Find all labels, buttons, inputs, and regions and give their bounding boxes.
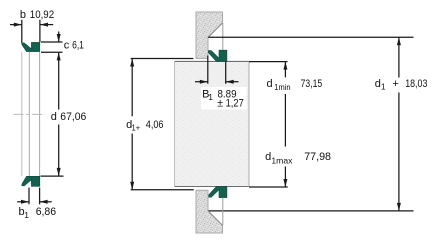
extension line d1 bottom (long) <box>209 210 414 212</box>
shaft top chamfer edge <box>208 23 223 37</box>
label d1min 73,15 <box>265 78 324 92</box>
label d1+ 4,06 <box>125 118 166 133</box>
extension line d bottom <box>41 175 64 177</box>
seal section bottom (free state) <box>22 176 40 186</box>
svg-text:d: d <box>51 111 57 123</box>
svg-text:10,92: 10,92 <box>30 9 54 21</box>
extension line d1 top (long) <box>208 36 413 38</box>
label B1 8.89 +-1,27 <box>201 87 247 110</box>
dimension d1+ 4,06 line <box>130 59 194 190</box>
label b1 6,86 <box>19 206 57 220</box>
extension line b1 left <box>28 188 30 205</box>
svg-text:b: b <box>20 9 26 21</box>
extension line B1 left <box>207 56 209 84</box>
label d1max 77,98 <box>264 151 332 166</box>
svg-text:1: 1 <box>381 82 386 92</box>
dimension d1min/d1max line <box>283 62 287 187</box>
seal installed bottom <box>208 186 227 197</box>
label b 10,92 <box>20 9 54 21</box>
extension line right (body right edge) <box>39 20 41 42</box>
extension line b1 right <box>39 188 41 205</box>
cylindrical surface line inner <box>39 52 41 176</box>
svg-text:1: 1 <box>24 210 29 220</box>
svg-text:d: d <box>267 78 273 90</box>
dimension d1 line <box>397 37 401 211</box>
svg-text:1max: 1max <box>271 156 293 166</box>
extension line c bottom <box>41 51 63 53</box>
svg-text:1+: 1+ <box>132 123 141 133</box>
shaft top <box>196 12 223 58</box>
dimension B1 arrows <box>195 80 239 84</box>
svg-text:1min: 1min <box>274 82 291 92</box>
cylindrical surface line middle <box>28 52 30 176</box>
seal installed top <box>208 50 227 61</box>
seal section top (free state) <box>22 42 40 51</box>
shaft bottom chamfer edge <box>208 211 223 225</box>
svg-text:18,03: 18,03 <box>405 78 427 90</box>
dimension d line with bottom arrow <box>57 52 61 175</box>
dimension b arrows <box>10 23 53 27</box>
svg-text:77,98: 77,98 <box>304 151 331 163</box>
svg-text:+: + <box>392 78 398 90</box>
svg-text:±: ± <box>217 98 223 110</box>
seat diameter line bottom <box>222 198 224 226</box>
svg-text:c: c <box>64 39 70 51</box>
svg-text:1: 1 <box>208 92 213 102</box>
label d1 + 18,03 <box>373 78 430 92</box>
cylindrical surface line outer <box>21 52 23 176</box>
extension line B1 right <box>225 62 227 84</box>
svg-text:d: d <box>265 151 271 163</box>
svg-text:6,86: 6,86 <box>36 206 56 218</box>
label d 67,06 <box>50 111 88 123</box>
dimension b1 arrows <box>17 200 52 204</box>
svg-text:6,1: 6,1 <box>72 39 84 51</box>
dimension c arrows <box>57 32 61 61</box>
extension line d1max <box>249 186 288 188</box>
label c 6,1 <box>64 39 84 51</box>
extension line d1min <box>249 61 288 63</box>
shaft bottom <box>196 190 223 233</box>
svg-text:67,06: 67,06 <box>60 111 86 123</box>
extension line left (lip tip) <box>21 20 23 43</box>
extension line c top <box>41 41 63 43</box>
svg-text:1,27: 1,27 <box>226 98 244 110</box>
svg-text:73,15: 73,15 <box>301 78 323 90</box>
axis centerline <box>14 113 46 115</box>
seat diameter line top <box>222 23 224 50</box>
svg-text:4,06: 4,06 <box>146 119 164 131</box>
housing block <box>175 61 250 186</box>
